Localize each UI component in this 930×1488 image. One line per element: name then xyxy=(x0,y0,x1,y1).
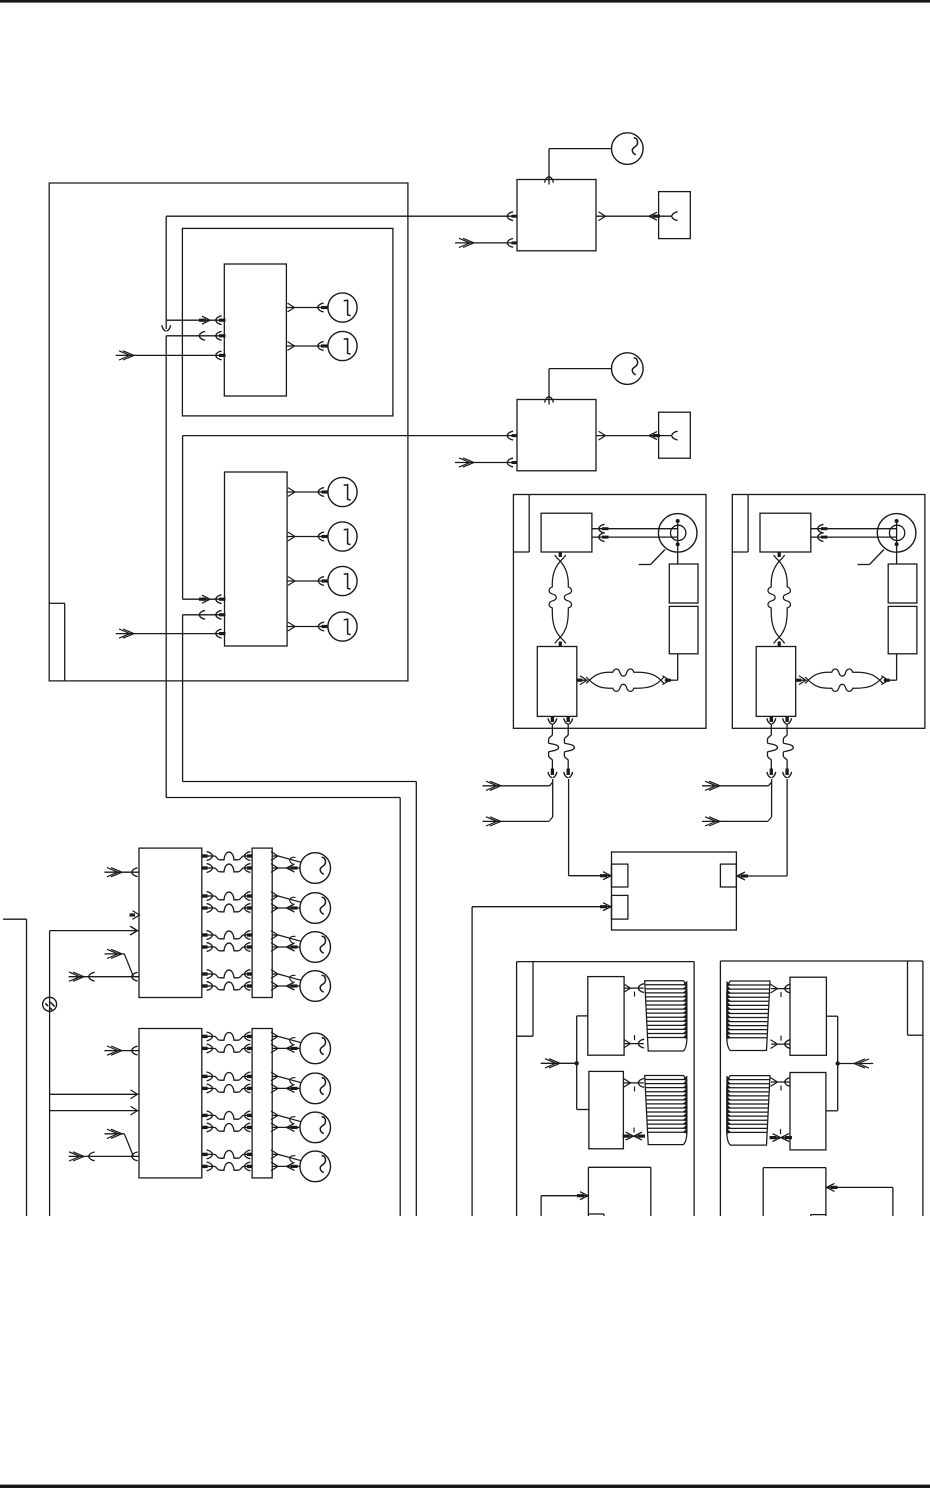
rear RH conn2 wire a xyxy=(771,1081,790,1083)
tail lamp group B2 twisted wire 3b xyxy=(202,1126,215,1128)
outline corner tab xyxy=(64,603,66,681)
rear RH lamp unit 2 xyxy=(790,1073,826,1150)
rear LH bulb connector 1 xyxy=(645,981,687,1051)
front door RH section S2 twisted pair switch-relay xyxy=(778,552,781,557)
junction block J2 xyxy=(225,472,288,646)
tail lamp group B2 twisted wire 4a xyxy=(202,1153,215,1155)
buzzer B2 xyxy=(612,353,644,385)
tail lamp group B1 lamp wire 2 lower xyxy=(272,907,300,909)
tail lamp group B2 lamp wire 1 lower xyxy=(272,1047,300,1049)
U1 input wire xyxy=(455,242,517,244)
tail lamp group B2 twisted wire 2a xyxy=(202,1075,215,1077)
wire W1 vertical xyxy=(165,216,167,324)
rear RH unit3 inner box xyxy=(811,1214,826,1216)
tail lamp group B1 twisted wire 2a xyxy=(202,895,215,897)
tail lamp group B2 ground branch wire 1 xyxy=(50,1093,139,1095)
S2 feed wire 1 xyxy=(702,785,768,787)
rear LH feed wire xyxy=(541,1062,577,1064)
inner unit outline (room lamp assy) xyxy=(182,228,393,416)
rear RH lamp unit 1 xyxy=(790,977,826,1055)
front door LH section S1 pigtail wire x=552.4 xyxy=(551,716,554,722)
tail lamp group B1 input wire 3 xyxy=(69,976,139,978)
tail lamp group B2 lamp wire 2 upper xyxy=(272,1075,277,1077)
rear LH lamp unit 2 xyxy=(589,1071,624,1148)
JB lower-left feed wire xyxy=(472,906,611,908)
tail lamp group B1 input wire 2 xyxy=(105,953,125,955)
front door RH section S2 door outline xyxy=(732,495,925,729)
rear LH unit3 inner box xyxy=(588,1213,604,1215)
rear LH lamp unit 3 xyxy=(588,1166,650,1168)
tail lamp group B1 twisted wire 4a xyxy=(202,973,215,975)
front door LH section S1 twisted pair switch-relay xyxy=(559,552,562,557)
rear RH conn2 wire b xyxy=(771,1137,790,1139)
tail lamp group B2 twisted wire 2b xyxy=(202,1087,215,1089)
tail lamp group B2 input wire 2 xyxy=(105,1133,125,1135)
rear RH outline tab xyxy=(907,961,909,1035)
tail lamp group B2 twisted wire 4b xyxy=(202,1165,215,1167)
front door RH section S2 twisted pair relay-motor xyxy=(796,679,805,681)
front door LH section S1 wire switch-motor lower xyxy=(592,536,677,538)
tail lamp group B1 twisted wire 3b xyxy=(202,946,215,948)
rear LH unit3 feed wire xyxy=(541,1195,588,1197)
rear LH conn2 wire a xyxy=(623,1082,643,1084)
tail lamp group B1 twisted wire 1b xyxy=(202,867,215,869)
tail lamp group B1 lamp wire 1 lower xyxy=(272,867,300,869)
U2 W2 pin cup xyxy=(507,431,513,435)
front door RH section S2 window motor xyxy=(877,514,916,553)
rear RH feed branch xyxy=(837,1016,839,1111)
tail lamp group B2 ground branch wire 2 xyxy=(50,1110,139,1112)
tail lamp group B1 lamp 2 xyxy=(300,893,331,924)
S2 right pigtail to junction xyxy=(786,779,788,876)
tail lamp group B1 lamp wire 3 upper xyxy=(272,934,277,936)
front door RH section S2 pigtail wire x=771.3 xyxy=(770,716,773,722)
rear RH bulb connector 1 xyxy=(727,981,770,1051)
wire W1 lower run xyxy=(166,797,400,799)
tail lamp group B1 lamp 4 xyxy=(300,971,331,1002)
tail lamp group B1 input wire 1 xyxy=(104,871,139,873)
wire W2 vertical xyxy=(182,436,184,600)
tail lamp group B2 lamp wire 3 lower xyxy=(272,1126,300,1128)
U2 wire to antenna xyxy=(596,435,672,437)
rear LH conn2 wire b xyxy=(623,1135,643,1137)
tail lamp group B2 lamp wire 1 upper xyxy=(272,1035,277,1037)
interior lamp L5 xyxy=(328,566,357,595)
tail lamp group B2 twisted wire 3a xyxy=(202,1114,215,1116)
tail lamp group B1 twisted wire 1a xyxy=(202,855,215,857)
wire J2 to lamp L3 xyxy=(287,491,328,493)
rear LH lamp unit 1 xyxy=(588,977,624,1056)
front door LH section S1 circuit breaker T1 xyxy=(669,564,698,603)
front door RH section S2 power window relay xyxy=(756,647,796,717)
tail lamp group B1 lamp wire 2 upper xyxy=(272,895,277,897)
tail lamp group B2 lamp 1 xyxy=(300,1033,331,1064)
front door RH section S2 pigtail wire x=787.1 xyxy=(785,716,788,722)
wire W1 horizontal from U1 xyxy=(166,215,517,217)
tail lamp group B1 lamp 1 xyxy=(300,853,331,884)
front door RH section S2 circuit breaker T1 xyxy=(888,564,917,603)
JB terminal lower-left xyxy=(612,895,628,919)
front door LH section S1 outline tab xyxy=(528,495,530,553)
wire J2 to lamp L5 xyxy=(287,580,328,582)
front door RH section S2 wire T2 down xyxy=(896,654,898,680)
tail lamp group B2 lamp wire 4 upper xyxy=(272,1153,277,1155)
ground point G1 xyxy=(43,997,57,1011)
rear LH section outline xyxy=(516,962,518,1216)
tail lamp group B1 lamp wire 4 upper xyxy=(272,973,277,975)
ground vertical wire xyxy=(49,931,51,1216)
wire W1 flow arrow xyxy=(165,324,167,329)
rear LH conn1 wire b xyxy=(624,1043,644,1045)
JB terminal upper-left xyxy=(612,864,628,887)
tail lamp group B1 relay box xyxy=(139,848,202,997)
rear RH bulb connector 2 xyxy=(727,1076,770,1146)
rear RH unit3 feed wire xyxy=(826,1186,893,1188)
wire J1 pin1 xyxy=(166,319,224,321)
ground feed wire xyxy=(50,930,139,932)
tail lamp group B1 twisted wire 4b xyxy=(202,985,215,987)
tail lamp group B2 lamp wire 2 lower xyxy=(272,1087,300,1089)
rear RH conn1 wire b xyxy=(771,1043,790,1045)
front door RH section S2 motor lever xyxy=(858,564,870,566)
tail lamp group B2 twisted wire 1b xyxy=(202,1047,215,1049)
tail lamp group B1 twisted wire 2b xyxy=(202,907,215,909)
tail lamp group B1 lamp wire 4 lower xyxy=(272,985,300,987)
tail lamp group B2 lamp 2 xyxy=(300,1073,331,1104)
antenna connector A1 xyxy=(659,192,691,239)
tail lamp group B2 lamp wire 4 lower xyxy=(272,1165,300,1167)
S1 left pigtail join xyxy=(552,779,554,817)
S1 feed wire 1 xyxy=(483,785,550,787)
wire W2 lower run xyxy=(183,781,417,783)
rear RH conn1 wire a xyxy=(771,988,790,990)
front door LH section S1 window motor xyxy=(658,514,697,553)
wire J1 to lamp L1 xyxy=(286,307,328,309)
tail lamp group B1 twisted wire 3a xyxy=(202,934,215,936)
front door LH section S1 wire switch-motor upper xyxy=(592,528,677,530)
instrument panel outline xyxy=(49,183,408,681)
tail lamp group B2 connector strip xyxy=(252,1029,272,1178)
U1 W1 pin cup xyxy=(507,212,513,216)
wire J2 to lamp L4 xyxy=(287,536,328,538)
wire J2 to lamp L6 xyxy=(287,626,328,628)
tail lamp group B2 lamp 3 xyxy=(300,1112,331,1143)
rear RH lamp unit 3 xyxy=(763,1167,826,1169)
wire W2 horizontal from U2 xyxy=(183,435,517,437)
bottom border rule xyxy=(0,1485,930,1488)
top border rule xyxy=(0,0,930,3)
tail lamp group B2 lamp 4 xyxy=(300,1151,331,1182)
front door LH section S1 door outline xyxy=(513,495,706,729)
rear LH feed branch xyxy=(576,1016,578,1110)
wire J2 pin3 input xyxy=(116,633,225,635)
S1 feed wire 2 xyxy=(483,820,550,822)
tail lamp group B2 lamp wire 3 upper xyxy=(272,1114,277,1116)
wire J2 pin2 xyxy=(183,614,225,616)
front door LH section S1 wire T2 down xyxy=(677,654,679,680)
tail lamp group B1 stub arrow xyxy=(130,913,136,916)
body wire stub xyxy=(3,918,26,920)
junction block J1 xyxy=(224,264,286,396)
tail lamp group B2 input wire 1 xyxy=(104,1050,139,1052)
tail lamp group B1 connector strip xyxy=(252,848,272,997)
S2 left pigtail join xyxy=(771,779,773,817)
interior lamp L6 xyxy=(328,612,357,641)
tail lamp group B1 lamp wire 3 lower xyxy=(272,946,300,948)
door control receiver U2 xyxy=(517,400,596,471)
front door LH section S1 twisted pair relay-motor xyxy=(577,679,586,681)
front door LH section S1 window switch xyxy=(541,513,592,552)
front door RH section S2 window switch xyxy=(760,513,811,552)
interior lamp L2 xyxy=(328,331,357,360)
front door RH section S2 circuit breaker T2 xyxy=(888,606,917,653)
rear LH conn1 wire a xyxy=(624,987,644,989)
S2 feed wire 2 xyxy=(702,820,768,822)
interior lamp L1 xyxy=(328,293,357,322)
rear LH outline tab xyxy=(532,962,534,1037)
tail lamp group B1 lamp 3 xyxy=(300,932,331,963)
rear RH section outline xyxy=(719,961,721,1216)
wire J1 to lamp L2 xyxy=(286,345,328,347)
S1 right pigtail to junction xyxy=(568,779,570,876)
front door RH section S2 wire switch-motor lower xyxy=(811,536,896,538)
front door LH section S1 circuit breaker T2 xyxy=(669,606,698,653)
interior lamp L4 xyxy=(328,522,357,551)
junction box JB xyxy=(612,852,737,930)
theft deterrent ECU U1 xyxy=(517,180,596,251)
front door LH section S1 power window relay xyxy=(537,647,577,717)
tail lamp group B1 ground branch arrow xyxy=(131,926,138,935)
U2 input wire xyxy=(455,462,517,464)
front door RH section S2 outline tab xyxy=(747,495,749,553)
front door LH section S1 motor lever xyxy=(639,564,651,566)
front door RH section S2 wire switch-motor upper xyxy=(811,528,896,530)
antenna connector A2 xyxy=(659,412,691,458)
tail lamp group B1 lamp wire 1 upper xyxy=(272,855,277,857)
wire J1 pin3 input xyxy=(116,354,225,356)
tail lamp group B2 twisted wire 1a xyxy=(202,1035,215,1037)
U1 wire to antenna xyxy=(596,215,672,217)
wire J1 pin2 xyxy=(166,335,224,337)
tail lamp group B2 input wire 3 xyxy=(69,1155,139,1157)
interior lamp L3 xyxy=(328,477,357,506)
front door LH section S1 pigtail wire x=568.2 xyxy=(567,716,570,722)
wire J2 pin1 xyxy=(183,598,225,600)
rear RH feed wire xyxy=(838,1063,874,1065)
tail lamp group B2 relay box xyxy=(139,1029,202,1178)
JB terminal right xyxy=(720,864,736,887)
security indicator buzzer B1 xyxy=(612,133,644,165)
rear LH bulb connector 2 xyxy=(645,1076,687,1145)
